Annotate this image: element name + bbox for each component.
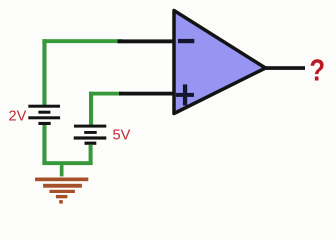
wire: black segment into inverting input [118,39,175,43]
wire: bottom horizontal joining both batteries (green) [42,161,92,165]
op-amp U1 plus (non-inverting) input sign [176,84,194,105]
wire: right vertical below battery B2 (green) [89,145,93,165]
wire: stub down to ground (green) [60,165,64,176]
wire: left vertical below battery B1 (green) [42,125,46,165]
wire: non-inverting input horizontal (green) [89,92,122,96]
ground bar 2 [43,184,82,188]
ground bar 5 (smallest) [59,200,63,204]
battery B2 plate 2 (short, -) [84,131,97,134]
battery B2 plate 4 (short, -) [85,142,97,145]
battery B1 plate 3 (long, +) [28,116,60,119]
op-amp U1 minus (inverting) input sign [178,39,194,43]
ground bar 4 [56,195,68,198]
battery B2 plate 1 (long, +) [74,125,106,128]
wire: inverting input horizontal (green) [42,39,122,43]
svg-text:?: ? [309,53,325,88]
wire: vertical from + corner down to battery B2 (green) [89,92,93,126]
wire: left vertical from top corner down to battery B1 (green) [42,39,46,106]
wire: op-amp output (black) [263,66,306,70]
battery B1 plate 2 (short, -) [38,111,50,114]
op-amp U1 (comparator triangle) [174,11,266,114]
ground bar 1 (widest) [35,178,88,182]
wire: black segment into non-inverting input [119,92,175,96]
svg-text:5V: 5V [113,128,131,144]
svg-text:2V: 2V [9,109,27,125]
battery B1 plate 4 (short, -) [38,122,50,125]
battery B1 plate 1 (long, +) [28,105,60,108]
ground bar 3 [50,190,75,193]
battery B2 plate 3 (long, +) [74,136,107,139]
